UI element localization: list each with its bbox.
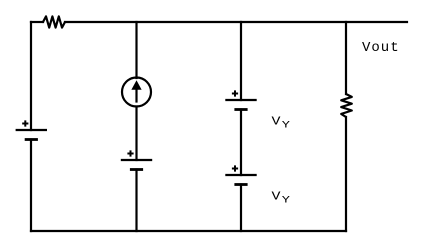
battery VY1 negative plate xyxy=(236,108,246,111)
svg-text:VY: VY xyxy=(272,116,291,131)
battery V2 negative plate xyxy=(131,168,141,171)
wire left branch upper xyxy=(30,22,32,130)
wire VY branch lower xyxy=(240,185,242,232)
battery VY1 positive plate xyxy=(226,99,255,101)
resistor R1 (top) xyxy=(43,16,65,27)
battery V1 negative plate xyxy=(26,138,36,141)
wire current-source branch middle xyxy=(135,107,137,161)
wire VY branch middle xyxy=(240,110,242,176)
wire right branch upper xyxy=(345,22,347,94)
wire VY branch upper xyxy=(240,22,242,100)
battery VY2 negative plate xyxy=(236,183,246,186)
svg-text:VY: VY xyxy=(272,191,291,206)
wire current-source branch upper xyxy=(135,22,137,78)
battery VY1 plus sign xyxy=(232,90,238,96)
battery VY2 positive plate xyxy=(226,174,255,176)
battery V2 positive plate xyxy=(122,159,151,161)
wire current-source branch lower xyxy=(135,170,137,232)
battery V1 positive plate xyxy=(17,129,46,131)
wire right branch lower xyxy=(345,117,347,231)
battery VY2 plus sign xyxy=(232,165,238,171)
wire top main (resistor to right end) xyxy=(65,21,407,23)
battery V1 plus sign xyxy=(22,120,28,126)
wire bottom xyxy=(31,230,346,232)
resistor R2 (right, vertical) xyxy=(341,94,352,117)
current source I1 xyxy=(122,78,151,107)
wire top segment (left corner to resistor) xyxy=(31,21,43,23)
wire left branch lower xyxy=(30,140,32,232)
svg-text:Vout: Vout xyxy=(362,40,400,56)
battery V2 plus sign xyxy=(127,150,133,156)
